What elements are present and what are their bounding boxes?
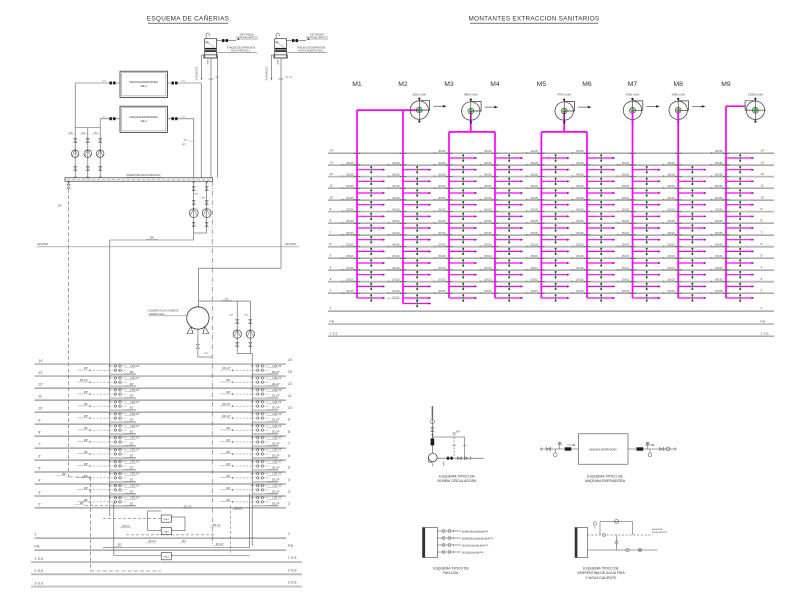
right floor line P.B. (328, 319, 774, 324)
tank2 drain pipe A DESAGUE (266, 55, 275, 81)
fan-coil branch right 3' (220, 484, 282, 493)
svg-text:1 Ø1 1/2": 1 Ø1 1/2" (130, 474, 140, 476)
svg-text:130000 Kcal/h: 130000 Kcal/h (149, 313, 165, 316)
svg-text:25X20: 25X20 (667, 243, 675, 247)
svg-text:6': 6' (39, 455, 42, 459)
green crossing ticks (354, 153, 729, 293)
svg-text:40X20: 40X20 (392, 231, 400, 235)
svg-text:UTA-3: UTA-3 (163, 556, 170, 559)
svg-text:25X25: 25X25 (667, 219, 675, 223)
svg-text:WE-2: WE-2 (141, 120, 148, 123)
svg-text:30X25: 30X25 (667, 184, 675, 188)
branch M2 floor 11' (387, 184, 431, 196)
svg-text:25X25: 25X25 (667, 208, 675, 212)
branch M4 floor 9' (479, 208, 523, 220)
branch M5 floor 5' (526, 254, 570, 266)
svg-text:Y AGUA CALIENTE: Y AGUA CALIENTE (586, 576, 618, 580)
svg-text:1 Ø1 1/2": 1 Ø1 1/2" (130, 498, 140, 500)
svg-text:25X10: 25X10 (530, 266, 538, 270)
branch M8 floor 10' (663, 196, 707, 208)
branch M6 floor 8' (571, 219, 615, 231)
svg-text:Ø3/4": Ø3/4" (208, 59, 210, 65)
svg-text:25X20: 25X20 (392, 295, 400, 299)
svg-text:45X35: 45X35 (715, 266, 723, 270)
svg-text:COLECTOR AGUA FRIA Ø 10": COLECTOR AGUA FRIA Ø 10" (126, 174, 161, 177)
svg-text:20X15: 20X15 (438, 289, 446, 293)
branch M2 floor 10' (387, 196, 431, 208)
svg-text:1' S.S.: 1' S.S. (35, 557, 44, 561)
branch M7 floor 12' (617, 173, 661, 185)
svg-text:40X25: 40X25 (392, 173, 400, 177)
svg-text:1 Ø1 1/2": 1 Ø1 1/2" (130, 426, 140, 428)
svg-text:P.B.: P.B. (761, 319, 766, 323)
branch M3 floor 13' (433, 161, 477, 173)
fan M7 1450 m3/h (623, 93, 659, 123)
riser M1 vertical (356, 110, 358, 298)
pipe WE-1 left (75, 81, 120, 128)
svg-text:25X25: 25X25 (576, 219, 584, 223)
svg-text:M9: M9 (721, 81, 731, 88)
fan-coil branch right 13' (220, 365, 282, 374)
svg-text:Ø2": Ø2" (227, 499, 231, 502)
branch M4 floor 2' (479, 289, 523, 301)
grid dashed main lower jog (57, 473, 162, 571)
detail fan-coil pipe RETORNO AGUA FRIA (438, 551, 484, 554)
svg-text:Ø¾": Ø¾" (456, 431, 461, 434)
branch M7 floor 3' (617, 278, 661, 290)
riser M2 vertical (402, 110, 404, 303)
svg-text:40X25: 40X25 (392, 184, 400, 188)
collector support hatches (67, 177, 208, 184)
branch M7 floor 7' (617, 231, 661, 243)
svg-text:1450 m3/h: 1450 m3/h (671, 93, 685, 97)
svg-text:30X25: 30X25 (346, 184, 354, 188)
branch M5 floor 12' (526, 173, 570, 185)
svg-text:HIDRONEUMATICO: HIDRONEUMATICO (236, 36, 258, 39)
svg-text:40X30: 40X30 (484, 196, 492, 200)
svg-text:13000 m3/h: 13000 m3/h (748, 93, 764, 97)
branch M3 floor 11' (433, 184, 477, 196)
svg-text:Ø4": Ø4" (205, 353, 209, 355)
branch M3 floor 6' (433, 243, 477, 255)
riser M9 vertical (725, 106, 727, 298)
svg-text:MAQUINA ENFRIADORA: MAQUINA ENFRIADORA (585, 479, 626, 483)
svg-text:1 Ø1 1/2": 1 Ø1 1/2" (130, 390, 140, 392)
svg-text:40X25: 40X25 (484, 219, 492, 223)
svg-text:30X30: 30X30 (576, 149, 584, 153)
fan-coil branch left 11' (78, 389, 140, 398)
branch M9 floor 7' (710, 231, 754, 243)
branch M3 floor 14' (433, 149, 477, 161)
svg-text:3': 3' (39, 491, 42, 495)
svg-text:4700 m3/h: 4700 m3/h (557, 93, 571, 97)
branch M3 floor 2' (433, 289, 477, 301)
duct riser M1 top header (357, 109, 419, 111)
svg-text:40X20: 40X20 (392, 243, 400, 247)
right floor line 11' (328, 184, 774, 189)
svg-text:40X25: 40X25 (392, 208, 400, 212)
branch M4 floor 13' (479, 161, 523, 173)
branch M6 floor 3' (571, 278, 615, 290)
branch M4 floor 6' (479, 243, 523, 255)
svg-text:80X50: 80X50 (715, 161, 723, 165)
svg-text:25X20: 25X20 (530, 243, 538, 247)
detail coil serpentina (575, 528, 588, 558)
branch M1 floor 11' (341, 184, 385, 196)
svg-text:1 Ø1 1/2": 1 Ø1 1/2" (130, 438, 140, 440)
svg-text:3' S.S.: 3' S.S. (288, 581, 297, 585)
svg-text:1' S.S.: 1' S.S. (761, 332, 770, 336)
branch M3 floor 10' (433, 196, 477, 208)
svg-text:40X30: 40X30 (576, 173, 584, 177)
svg-text:80X55: 80X55 (715, 149, 723, 153)
svg-text:Ø2": Ø2" (227, 391, 231, 394)
return pump discharge (192, 222, 208, 240)
branch M9 floor 4' (710, 266, 754, 278)
grid vertical supply main (109, 364, 111, 516)
svg-text:45X20: 45X20 (346, 161, 354, 165)
svg-text:30X20: 30X20 (392, 266, 400, 270)
branch M6 floor 5' (571, 254, 615, 266)
svg-text:25X20: 25X20 (484, 278, 492, 282)
branch M4 floor 4' (479, 266, 523, 278)
branch M6 floor 2' (571, 289, 615, 301)
branch M5 floor 14' (526, 149, 570, 161)
svg-text:45X45: 45X45 (715, 254, 723, 258)
svg-text:25X20: 25X20 (484, 243, 492, 247)
svg-text:11': 11' (288, 394, 292, 398)
right floor line 12' (328, 172, 774, 177)
branch M6 floor 12' (571, 173, 615, 185)
svg-text:1': 1' (35, 533, 38, 537)
svg-text:4': 4' (288, 478, 291, 482)
svg-text:1 Ø1 1/2": 1 Ø1 1/2" (130, 402, 140, 404)
svg-text:P.B.: P.B. (330, 319, 335, 323)
svg-text:25X20: 25X20 (530, 231, 538, 235)
svg-text:3' S.S.: 3' S.S. (35, 581, 44, 585)
svg-text:25X20: 25X20 (576, 231, 584, 235)
svg-text:Ø3/4": Ø3/4" (278, 59, 280, 65)
svg-text:35X25: 35X25 (667, 173, 675, 177)
svg-text:80X50: 80X50 (715, 196, 723, 200)
svg-text:Ø2": Ø2" (84, 427, 88, 430)
fan-coil branch right 2' (220, 496, 282, 505)
grid vertical hot supply (251, 364, 253, 546)
svg-text:1450 m3/h: 1450 m3/h (626, 93, 640, 97)
title MONTANTES EXTRACCION SANITARIOS (469, 16, 600, 24)
branch M7 floor 8' (617, 219, 661, 231)
branch M6 floor 11' (571, 184, 615, 196)
chiller box MAQUINA ENFRIADORA WE-1 (120, 71, 168, 97)
fan-coil branch left 3' (78, 484, 140, 493)
svg-text:35X25: 35X25 (530, 161, 538, 165)
UTA labels (115, 506, 243, 546)
svg-text:25X25: 25X25 (346, 219, 354, 223)
left floor line 12' (35, 382, 293, 388)
svg-text:25X20: 25X20 (667, 231, 675, 235)
branch M6 floor 6' (571, 243, 615, 255)
left floor line 1' (35, 532, 291, 538)
svg-text:40X25: 40X25 (530, 149, 538, 153)
svg-text:25X10: 25X10 (622, 266, 630, 270)
riser M3 vertical (448, 132, 450, 298)
branch M5 floor 10' (526, 196, 570, 208)
svg-text:ESQUEMA TIPICO DE: ESQUEMA TIPICO DE (433, 567, 469, 571)
svg-text:1 Ø1 1/2": 1 Ø1 1/2" (272, 450, 282, 452)
svg-text:M6: M6 (582, 81, 592, 88)
svg-text:14': 14' (39, 359, 44, 363)
svg-text:P.B.: P.B. (288, 544, 294, 548)
branch M2 floor 12' (387, 173, 431, 185)
svg-text:25X20: 25X20 (576, 243, 584, 247)
svg-text:14': 14' (288, 358, 293, 362)
svg-text:1 Ø1 1/2": 1 Ø1 1/2" (130, 414, 140, 416)
detail chiller schematic box (578, 434, 628, 464)
svg-text:40X25: 40X25 (576, 208, 584, 212)
svg-text:Ø2": Ø2" (227, 379, 231, 382)
air handler box UTA-2 (161, 527, 171, 534)
svg-text:35X30: 35X30 (484, 161, 492, 165)
svg-text:25X25: 25X25 (622, 208, 630, 212)
svg-text:ALIMENTACION AGUA FRIA: ALIMENTACION AGUA FRIA (462, 530, 489, 533)
svg-text:30X25: 30X25 (667, 196, 675, 200)
branch M9 floor 12' (710, 173, 754, 185)
branch M2 floor 5' (387, 254, 431, 266)
branch M2 floor 8' (387, 219, 431, 231)
branch M3 floor 5' (433, 254, 477, 266)
right floor line 13' (328, 160, 774, 165)
left floor line 4' (35, 478, 291, 484)
fan M8 1450 m3/h (669, 93, 705, 123)
detail chiller right pipe (628, 442, 677, 457)
branch M7 floor 2' (617, 289, 661, 301)
branch M7 floor 4' (617, 266, 661, 278)
return pump columns (192, 181, 208, 233)
label DE TANQUE HIDRONEUMATICO 2 (306, 33, 328, 40)
riser M4 vertical (494, 132, 496, 298)
svg-text:Ø2": Ø2" (230, 314, 234, 316)
detail chiller left pipe (540, 442, 579, 457)
branch M4 floor 10' (479, 196, 523, 208)
svg-text:AGUA FRIA 500 L.: AGUA FRIA 500 L. (231, 50, 251, 53)
fan-coil branch right 6' (220, 449, 282, 458)
branch M3 floor 3' (433, 278, 477, 290)
svg-text:35X30: 35X30 (484, 149, 492, 153)
svg-text:9': 9' (288, 418, 291, 422)
branch M7 floor 10' (617, 196, 661, 208)
fan-coil branch left 12' (78, 377, 140, 386)
branch M6 floor 7' (571, 231, 615, 243)
branch M8 floor 13' (663, 161, 707, 173)
branch M7 floor 13' (617, 161, 661, 173)
fan-coil branch left 10' (78, 401, 140, 410)
hot water pump valves (230, 314, 252, 323)
svg-text:20X15: 20X15 (346, 278, 354, 282)
svg-text:2': 2' (288, 502, 291, 506)
branch M5 floor 13' (526, 161, 570, 173)
svg-text:25X15: 25X15 (576, 254, 584, 258)
branch M2 floor 3' (387, 278, 431, 290)
svg-text:3': 3' (288, 490, 291, 494)
branch M7 floor 9' (617, 208, 661, 220)
main pipe 4in to risers (110, 237, 194, 364)
branch M4 floor 8' (479, 219, 523, 231)
branch M6 floor 10' (571, 196, 615, 208)
branch M8 floor 12' (663, 173, 707, 185)
branch M2 floor 6' (387, 243, 431, 255)
branch M8 floor 3' (663, 278, 707, 290)
air handler box UTA-3 (161, 553, 171, 560)
branch M9 floor 8' (710, 219, 754, 231)
svg-text:25X10: 25X10 (438, 266, 446, 270)
branch M4 floor 14' (479, 149, 523, 161)
svg-text:M3: M3 (444, 81, 454, 88)
svg-text:20X15: 20X15 (530, 278, 538, 282)
svg-text:1 Ø1 1/2": 1 Ø1 1/2" (272, 474, 282, 476)
svg-text:4': 4' (39, 479, 42, 483)
svg-text:ESQUEMA DE CAÑERIAS: ESQUEMA DE CAÑERIAS (147, 14, 229, 23)
fan M3/M4 4800 m3/h (462, 93, 498, 124)
svg-text:40X25: 40X25 (715, 289, 723, 293)
svg-text:30X30: 30X30 (576, 161, 584, 165)
left floor line 5' (35, 466, 291, 472)
svg-text:Ø2": Ø2" (84, 391, 88, 394)
svg-text:75X50: 75X50 (715, 208, 723, 212)
svg-text:25X25: 25X25 (346, 208, 354, 212)
label TANQUE DE EXPANSION AGUA CALIENTE (297, 47, 325, 53)
svg-text:AZOTEA: AZOTEA (285, 242, 296, 246)
svg-text:30X25: 30X25 (438, 184, 446, 188)
fan-coil branch left 4' (78, 472, 140, 481)
branch M5 floor 3' (526, 278, 570, 290)
fan-coil branch right 4' (220, 472, 282, 481)
svg-text:25X15: 25X15 (622, 254, 630, 258)
svg-text:Ø2": Ø2" (227, 463, 231, 466)
fan M9 13000 m3/h (745, 93, 766, 123)
right floor line 7' (328, 230, 774, 235)
return pump 1 (189, 209, 198, 218)
svg-text:25X15: 25X15 (438, 254, 446, 258)
fan-coil branch left 13' (78, 365, 140, 374)
branch M9 floor 9' (710, 208, 754, 220)
svg-text:45X20: 45X20 (622, 161, 630, 165)
svg-text:13': 13' (761, 160, 765, 164)
svg-text:Ø2": Ø2" (84, 403, 88, 406)
svg-text:ESQUEMA TIPICO DE: ESQUEMA TIPICO DE (583, 567, 619, 571)
svg-text:20X15: 20X15 (438, 278, 446, 282)
svg-text:25X10: 25X10 (346, 266, 354, 270)
svg-text:Ø2 1/2": Ø2 1/2" (223, 415, 231, 418)
caption detail chiller (585, 475, 626, 484)
branch M5 floor 9' (526, 208, 570, 220)
fan-coil branch right 5' (220, 461, 282, 470)
svg-text:1 Ø1 1/2": 1 Ø1 1/2" (130, 450, 140, 452)
pump column B1 (67, 128, 79, 178)
fan-coil branch left 2' (78, 496, 140, 505)
left floor line 3' S.S. (31, 581, 302, 587)
svg-text:35X25: 35X25 (622, 173, 630, 177)
svg-text:25X20: 25X20 (438, 231, 446, 235)
fan-coil branch left 5' (78, 461, 140, 470)
svg-text:40X25: 40X25 (392, 161, 400, 165)
riser M7 vertical (632, 110, 634, 298)
left floor line 1' S.S. (31, 556, 302, 562)
svg-text:25X20: 25X20 (438, 243, 446, 247)
svg-text:AZOTEA: AZOTEA (37, 242, 48, 246)
svg-text:1 Ø1 1/2": 1 Ø1 1/2" (272, 438, 282, 440)
svg-text:1 Ø1 1/2": 1 Ø1 1/2" (272, 402, 282, 404)
svg-text:10': 10' (39, 407, 44, 411)
svg-text:Ø2": Ø2" (202, 198, 206, 200)
svg-text:25X15: 25X15 (530, 254, 538, 258)
branch M7 floor 6' (617, 243, 661, 255)
svg-text:P.B.: P.B. (35, 545, 41, 549)
svg-text:1': 1' (288, 532, 291, 536)
branch M3 floor 9' (433, 208, 477, 220)
svg-text:A DESAGÜE: A DESAGÜE (196, 66, 199, 80)
svg-text:13': 13' (39, 371, 44, 375)
branch M6 floor 13' (571, 161, 615, 173)
left floor line 9' (35, 418, 291, 424)
branch M9 floor 6' (710, 243, 754, 255)
svg-text:40X25: 40X25 (392, 219, 400, 223)
svg-text:SERPENTINA DE AGUA FRIA: SERPENTINA DE AGUA FRIA (577, 571, 625, 575)
left floor line 2' (35, 502, 291, 508)
tank1 drain pipe A DESAGUE (196, 55, 205, 81)
svg-text:M5: M5 (537, 81, 547, 88)
svg-text:Ø2": Ø2" (184, 140, 188, 142)
svg-text:Ø1": Ø1" (216, 77, 220, 79)
svg-text:Ø2": Ø2" (84, 439, 88, 442)
svg-text:40X25: 40X25 (484, 208, 492, 212)
fan-coil branch left 6' (78, 449, 140, 458)
svg-text:2' S.S.: 2' S.S. (35, 569, 44, 573)
svg-text:2500 m3/h: 2500 m3/h (412, 93, 426, 97)
svg-text:10': 10' (761, 195, 765, 199)
branch M2 lower level (387, 295, 431, 307)
branch M2 floor 7' (387, 231, 431, 243)
svg-text:Ø2 1/2": Ø2 1/2" (223, 403, 231, 406)
right floor line 6' (328, 242, 774, 247)
right floor line 8' (328, 219, 774, 224)
svg-text:FAN-COIL: FAN-COIL (443, 571, 459, 575)
left floor line 2' S.S. (31, 569, 302, 575)
svg-text:30X25: 30X25 (530, 184, 538, 188)
svg-text:1 Ø1 1/2": 1 Ø1 1/2" (272, 426, 282, 428)
svg-text:14': 14' (761, 149, 765, 153)
branch M8 floor 7' (663, 231, 707, 243)
detail fan-coil unit (423, 528, 438, 558)
svg-text:25X25: 25X25 (530, 208, 538, 212)
fan M5/M6 4700 m3/h (555, 93, 591, 124)
svg-text:40X25: 40X25 (438, 161, 446, 165)
fan M1/M2 2500 m3/h (410, 93, 446, 123)
branch M8 floor 2' (663, 289, 707, 301)
svg-text:1 Ø1 1/2": 1 Ø1 1/2" (130, 366, 140, 368)
dashed chilled water main (68, 189, 70, 477)
UTA piping cluster (103, 494, 250, 556)
svg-text:Ø2": Ø2" (227, 487, 231, 490)
fan-coil branch right 10' (220, 401, 282, 410)
fan-coil branch left 7' (78, 437, 140, 446)
svg-text:25X25: 25X25 (438, 208, 446, 212)
expansion tank cold water (204, 33, 257, 58)
branch M8 floor 8' (663, 219, 707, 231)
svg-text:Ø2": Ø2" (84, 475, 88, 478)
svg-text:25X20: 25X20 (622, 243, 630, 247)
svg-text:25X25: 25X25 (484, 231, 492, 235)
pipe WE-1 right (168, 81, 202, 178)
